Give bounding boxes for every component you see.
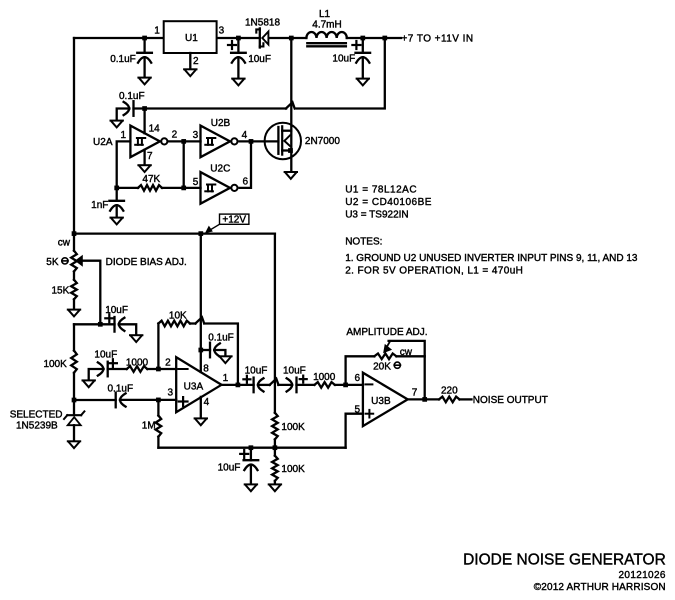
svg-text:1000: 1000 — [313, 372, 336, 383]
svg-text:3: 3 — [168, 388, 174, 399]
svg-text:1N5818: 1N5818 — [245, 17, 280, 28]
svg-text:1. GROUND U2 UNUSED INVERTER I: 1. GROUND U2 UNUSED INVERTER INPUT PINS … — [345, 253, 638, 264]
svg-text:3: 3 — [193, 130, 199, 141]
svg-text:NOTES:: NOTES: — [345, 237, 382, 248]
svg-text:6: 6 — [243, 177, 249, 188]
svg-text:100K: 100K — [281, 422, 305, 433]
svg-text:1: 1 — [223, 373, 229, 384]
svg-text:U2 = CD40106BE: U2 = CD40106BE — [345, 197, 432, 208]
svg-text:2: 2 — [193, 56, 199, 67]
svg-text:1M: 1M — [142, 421, 156, 432]
svg-text:0.1uF: 0.1uF — [208, 333, 234, 344]
svg-text:20K: 20K — [373, 361, 391, 372]
svg-text:DIODE BIAS ADJ.: DIODE BIAS ADJ. — [106, 257, 187, 268]
svg-text:U2B: U2B — [211, 118, 231, 129]
svg-text:1N5239B: 1N5239B — [16, 421, 58, 432]
svg-text:1: 1 — [154, 26, 160, 37]
svg-text:2. FOR 5V OPERATION, L1 = 470u: 2. FOR 5V OPERATION, L1 = 470uH — [345, 266, 523, 277]
svg-text:4: 4 — [204, 397, 210, 408]
svg-text:6: 6 — [355, 373, 361, 384]
svg-text:AMPLITUDE ADJ.: AMPLITUDE ADJ. — [346, 327, 427, 338]
svg-text:10uF: 10uF — [283, 366, 306, 377]
svg-text:10uF: 10uF — [248, 54, 271, 65]
svg-text:220: 220 — [441, 386, 458, 397]
svg-text:cw: cw — [58, 237, 71, 248]
svg-text:0.1uF: 0.1uF — [110, 54, 136, 65]
svg-text:5: 5 — [193, 177, 199, 188]
svg-text:U1: U1 — [185, 33, 198, 44]
svg-text:U2A: U2A — [93, 137, 113, 148]
svg-text:7: 7 — [412, 387, 418, 398]
svg-text:10uF: 10uF — [245, 366, 268, 377]
svg-text:4: 4 — [242, 130, 248, 141]
svg-text:2: 2 — [172, 130, 178, 141]
svg-text:SELECTED: SELECTED — [10, 410, 63, 421]
svg-text:U1 = 78L12AC: U1 = 78L12AC — [345, 185, 417, 196]
svg-text:15K: 15K — [52, 285, 70, 296]
svg-text:1000: 1000 — [126, 358, 149, 369]
svg-text:U3A: U3A — [184, 381, 204, 392]
svg-text:+7 TO +11V IN: +7 TO +11V IN — [402, 33, 474, 44]
svg-text:10uF: 10uF — [332, 53, 355, 64]
svg-text:U2C: U2C — [210, 164, 230, 175]
svg-text:3: 3 — [219, 26, 225, 37]
svg-text:0.1uF: 0.1uF — [108, 383, 134, 394]
svg-text:14: 14 — [149, 124, 161, 135]
svg-text:7: 7 — [147, 151, 153, 162]
svg-text:©2012 ARTHUR HARRISON: ©2012 ARTHUR HARRISON — [534, 582, 666, 593]
svg-text:cw: cw — [400, 347, 413, 358]
svg-text:20121026: 20121026 — [619, 570, 666, 581]
svg-text:100K: 100K — [281, 464, 305, 475]
svg-text:NOISE OUTPUT: NOISE OUTPUT — [473, 395, 548, 406]
svg-text:2: 2 — [165, 358, 171, 369]
svg-text:DIODE NOISE GENERATOR: DIODE NOISE GENERATOR — [463, 551, 666, 568]
svg-text:10uF: 10uF — [218, 463, 241, 474]
svg-text:2N7000: 2N7000 — [305, 136, 340, 147]
svg-text:10uF: 10uF — [105, 305, 128, 316]
svg-text:U3B: U3B — [371, 396, 391, 407]
svg-text:U3 = TS922IN: U3 = TS922IN — [345, 210, 408, 221]
svg-text:L1: L1 — [319, 9, 331, 20]
svg-text:47K: 47K — [142, 174, 160, 185]
svg-text:100K: 100K — [43, 359, 67, 370]
svg-text:10K: 10K — [169, 310, 187, 321]
svg-text:4.7mH: 4.7mH — [312, 20, 341, 31]
svg-text:10uF: 10uF — [94, 349, 117, 360]
svg-text:1nF: 1nF — [91, 200, 108, 211]
svg-text:0.1uF: 0.1uF — [119, 91, 145, 102]
svg-text:1: 1 — [121, 130, 127, 141]
svg-text:+12V: +12V — [222, 215, 246, 226]
svg-text:5K: 5K — [46, 257, 59, 268]
